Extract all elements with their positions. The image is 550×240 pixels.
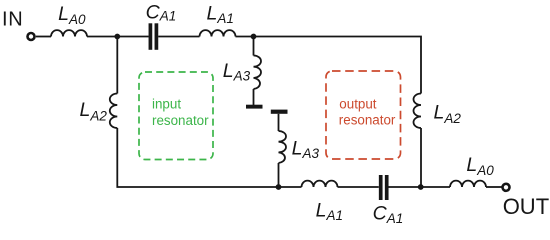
svg-text:resonator: resonator <box>152 113 209 128</box>
inductor L_A3 (lower, vertical) <box>279 131 287 163</box>
wire L_A0 bottom to OUT terminal <box>486 186 502 188</box>
wire node D to L_A0 bottom <box>421 186 450 188</box>
input resonator box <box>139 72 213 160</box>
inductor L_A3 (upper, vertical) <box>254 56 262 90</box>
wire L_A3 lower to node C <box>278 163 280 187</box>
node C (junction dot) <box>276 184 282 190</box>
wire L_A1 bottom to C_A1 bottom <box>338 186 379 188</box>
output resonator box <box>326 71 401 159</box>
svg-text:CA1: CA1 <box>146 1 177 23</box>
wire C_A1 to L_A1 <box>158 36 199 38</box>
node B (junction dot) <box>251 34 257 40</box>
wire ground bar to L_A3 lower <box>278 114 280 131</box>
inductor L_A0 (bottom) <box>450 181 486 187</box>
wire node B to top-right corner down to L_A2 right <box>254 37 422 94</box>
wire C_A1 bottom to node D <box>389 186 422 188</box>
svg-text:LA3: LA3 <box>223 60 251 83</box>
wire L_A2 left to bottom rail <box>117 128 301 187</box>
node A (junction dot) <box>114 34 120 40</box>
svg-text:LA0: LA0 <box>466 154 494 178</box>
wire node B down to L_A3 upper <box>253 37 255 56</box>
svg-text:resonator: resonator <box>339 112 396 127</box>
inductor L_A2 (right, vertical) <box>414 94 422 129</box>
svg-text:output: output <box>339 96 377 111</box>
wire L_A3 upper to ground bar <box>253 89 255 105</box>
ground bar (lower L_A3 top) <box>271 110 288 114</box>
node D (junction dot) <box>418 184 424 190</box>
svg-text:LA0: LA0 <box>58 3 86 27</box>
wire L_A1 to node B <box>236 36 254 38</box>
capacitor C_A1 (top) plates <box>149 23 153 50</box>
svg-text:LA2: LA2 <box>80 99 108 124</box>
inductor L_A1 (top) <box>200 30 236 36</box>
capacitor C_A1 (bottom) plates <box>379 175 383 200</box>
svg-text:LA1: LA1 <box>316 199 343 223</box>
svg-text:LA3: LA3 <box>292 138 320 162</box>
svg-text:LA2: LA2 <box>434 102 462 126</box>
inductor L_A2 (left, vertical) <box>110 94 117 129</box>
svg-text:input: input <box>152 97 181 112</box>
svg-text:OUT: OUT <box>503 194 549 219</box>
wire L_A2 right to node D <box>420 128 422 187</box>
inductor L_A1 (bottom) <box>302 181 338 187</box>
wire IN to L_A0 <box>36 36 51 38</box>
wire node A down to L_A2 left <box>116 37 118 94</box>
svg-text:CA1: CA1 <box>373 203 404 226</box>
svg-text:IN: IN <box>2 8 23 30</box>
IN terminal <box>28 33 35 40</box>
ground bar (upper L_A3 termination) <box>246 105 263 109</box>
wire node A to C_A1 <box>117 36 148 38</box>
OUT terminal <box>503 184 510 191</box>
inductor L_A0 (top) <box>51 30 87 36</box>
svg-text:LA1: LA1 <box>207 2 234 26</box>
wire L_A0 to node A <box>87 36 117 38</box>
